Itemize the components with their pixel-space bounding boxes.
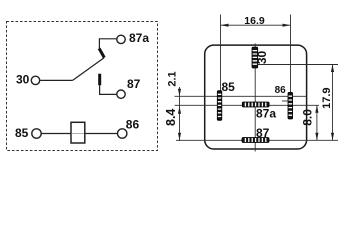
wire to 87a terminal	[99, 39, 116, 49]
arrow up 17.9	[331, 65, 334, 73]
arrow down 17.9	[331, 133, 334, 141]
svg-text:8.0: 8.0	[301, 109, 315, 126]
pin 87 blade	[242, 138, 269, 143]
extension line pin30 bottom	[258, 64, 338, 66]
dimension line 8.0	[316, 105, 318, 140]
pin 85 blade	[217, 91, 222, 121]
terminal circle 86	[118, 129, 127, 138]
pin 30 blade	[252, 47, 258, 68]
svg-text:17.9: 17.9	[321, 87, 333, 108]
wire coil to 86	[85, 133, 118, 135]
svg-text:85: 85	[15, 126, 29, 140]
coil K1	[71, 122, 85, 143]
arrow left 16.9	[221, 24, 229, 27]
svg-text:87: 87	[127, 77, 141, 91]
svg-text:86: 86	[126, 118, 140, 132]
wire from 30	[40, 79, 72, 81]
fixed contact 87a (thick)	[99, 48, 104, 57]
svg-text:87: 87	[256, 126, 270, 140]
arrow up 8.0	[315, 105, 318, 113]
left dimension line (2.1 / 8.4)	[179, 87, 181, 141]
pin 87a blade	[242, 102, 269, 107]
arrow down 8.0	[315, 133, 318, 141]
svg-text:87a: 87a	[256, 107, 276, 121]
svg-text:85: 85	[222, 80, 236, 94]
arrow right 16.9	[283, 24, 291, 27]
arrow down tip 140.3	[178, 133, 181, 141]
dimension 16.9 extension right	[290, 15, 292, 93]
pin 86 blade	[288, 92, 293, 119]
extension line upper (2.1 top)	[175, 95, 307, 97]
arrow up tip 104.8	[178, 106, 181, 114]
horizontal centerline	[175, 104, 320, 106]
coil wire (faint, through box)	[72, 133, 84, 135]
dashed relay outline box	[7, 22, 158, 151]
svg-text:8.4: 8.4	[164, 109, 178, 126]
svg-text:86: 86	[275, 85, 287, 96]
dimension 16.9 extension left	[220, 15, 222, 91]
wire to 87 terminal	[100, 85, 117, 94]
extension line pin87 row	[176, 139, 338, 141]
dimension line 17.9	[332, 65, 334, 141]
vertical centerline	[254, 43, 256, 151]
svg-text:30: 30	[255, 51, 269, 65]
terminal circle 30	[31, 76, 39, 84]
relay body outline (bottom view)	[205, 45, 307, 149]
svg-text:2.1: 2.1	[167, 71, 179, 86]
tick at pin 86	[282, 100, 288, 102]
terminal circle 87	[117, 90, 125, 98]
terminal circle 85	[32, 129, 41, 138]
armature wire (common to 87a)	[73, 58, 105, 81]
terminal circle 87a	[117, 35, 125, 43]
svg-text:87a: 87a	[129, 31, 149, 45]
dimension line 16.9	[221, 24, 291, 26]
svg-text:16.9: 16.9	[244, 15, 265, 27]
svg-text:30: 30	[16, 73, 30, 87]
fixed contact 87 (thick)	[98, 74, 101, 86]
arrow down tip 95.3	[178, 89, 181, 97]
wire 85 to coil	[41, 133, 71, 135]
